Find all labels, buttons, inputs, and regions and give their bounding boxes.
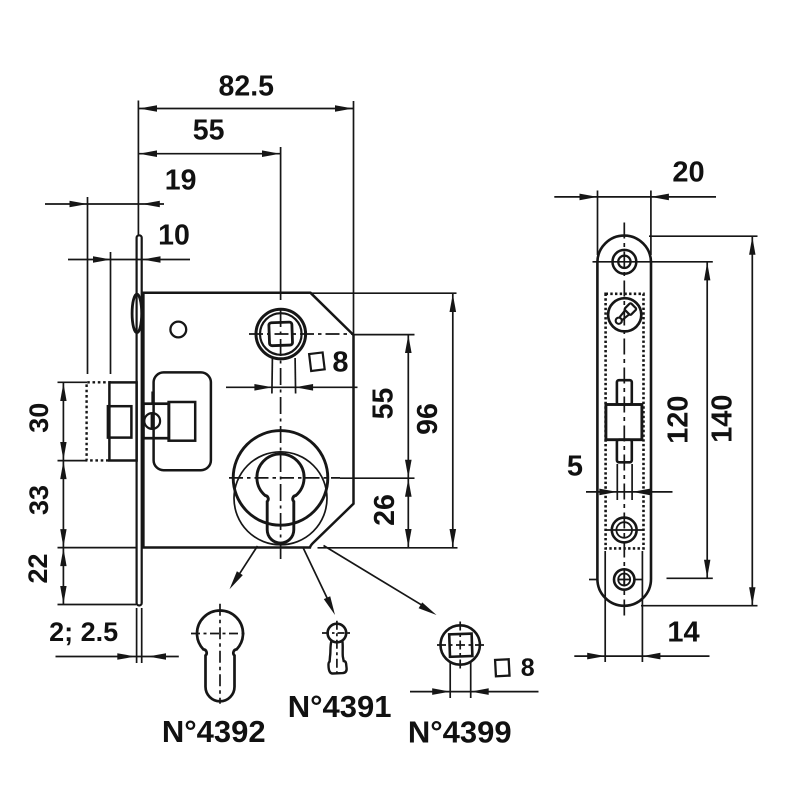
svg-text:10: 10 bbox=[158, 220, 190, 252]
dimension 33 bbox=[24, 461, 66, 548]
svg-text:19: 19 bbox=[165, 165, 197, 197]
cylinder centreline tick to 26/55 bbox=[340, 477, 415, 479]
faceplate thickness witness line right bbox=[141, 608, 143, 663]
follower hub outer circle bbox=[256, 309, 306, 359]
tick to 55 dimension (right of body) bbox=[352, 334, 415, 336]
svg-text:8: 8 bbox=[521, 654, 535, 682]
top screw hole inner bbox=[618, 256, 630, 268]
middle screw hole inner bbox=[616, 522, 632, 538]
N4392 centreline horizontal bbox=[191, 633, 248, 635]
dimension 10 (latch throw) bbox=[68, 220, 190, 263]
screw slot bbox=[151, 413, 154, 430]
faceplate (side view) bbox=[137, 235, 142, 605]
dimension 82.5 (top, lock depth) bbox=[138, 71, 353, 112]
dimension 2; 2.5 (faceplate thickness) bbox=[49, 617, 179, 660]
extension line left (faceplate, above) bbox=[137, 101, 139, 236]
callout arrow to N4399 bbox=[324, 546, 437, 616]
detail N4399 spindle circle bbox=[441, 625, 480, 664]
lock body outline bbox=[143, 293, 353, 548]
svg-text:2; 2.5: 2; 2.5 bbox=[49, 617, 118, 647]
key cylinder circle bbox=[608, 298, 641, 331]
svg-text:5: 5 bbox=[567, 451, 583, 483]
follower/cylinder centreline vertical bbox=[280, 310, 282, 562]
tick 30 top bbox=[58, 381, 88, 383]
latch spring housing rounded rect bbox=[154, 372, 211, 470]
dimension 19 (deadlocked latch throw) bbox=[45, 165, 196, 208]
cylinder rose thin circle bbox=[234, 452, 327, 545]
svg-text:20: 20 bbox=[672, 157, 704, 189]
latch front wide body bbox=[606, 405, 642, 440]
svg-text:33: 33 bbox=[24, 485, 54, 515]
N4399 square bbox=[449, 634, 472, 657]
callout arrow to N4392 bbox=[230, 546, 258, 589]
dimension 55 (backset) bbox=[138, 115, 281, 158]
latch stem block bbox=[143, 404, 169, 439]
top screw hole outer bbox=[613, 250, 637, 274]
cylinder hole thick circle bbox=[233, 431, 328, 526]
latch front upper tail bbox=[617, 380, 632, 404]
callout arrow to N4391 bbox=[303, 548, 335, 616]
tick 120 bottom bbox=[667, 577, 713, 579]
extension line right (body rear, for 82.5) bbox=[353, 101, 355, 334]
bottom hole centreline right bbox=[634, 579, 643, 581]
tick 22 bottom (faceplate bottom extension) bbox=[58, 604, 137, 606]
dimension 5 (latch tail width) bbox=[567, 451, 673, 496]
svg-text:140: 140 bbox=[707, 395, 739, 443]
witness line latch tail right bbox=[631, 464, 633, 500]
dimension 140 (plate length) bbox=[707, 236, 756, 606]
tick bottom right (body bottom extension) bbox=[318, 547, 458, 549]
dimension 120 (hole centres) bbox=[663, 262, 711, 579]
witness line plate left edge bbox=[597, 191, 599, 256]
tick 96 top (body top extension) bbox=[311, 292, 457, 294]
latch bolt head middle band bbox=[108, 406, 131, 437]
svg-text:120: 120 bbox=[663, 396, 695, 444]
svg-text:55: 55 bbox=[193, 115, 225, 147]
square spindle witness line left bbox=[271, 358, 274, 394]
witness line case right (for 14) bbox=[641, 551, 643, 662]
euro profile cylinder hole bbox=[257, 454, 304, 543]
extension line latch tip normal bbox=[110, 252, 112, 374]
screw guide line bbox=[151, 392, 153, 404]
N4399 witness line left bbox=[449, 662, 451, 699]
latch bolt dotted extended outline bbox=[87, 382, 111, 460]
bottom hole cross slot bbox=[619, 574, 630, 585]
middle hole centreline bbox=[605, 529, 645, 531]
square symbol near N4399 bbox=[495, 659, 509, 676]
N4399 witness line right bbox=[470, 662, 472, 699]
follower hub inner circle bbox=[260, 313, 302, 355]
tick 140 bottom bbox=[641, 605, 758, 607]
tick 30/33 bbox=[58, 460, 88, 462]
witness line latch tail left bbox=[616, 464, 618, 500]
latch inner rectangle bbox=[169, 402, 196, 441]
svg-text:26: 26 bbox=[369, 494, 401, 526]
latch adjusting screw bbox=[144, 413, 160, 429]
dimension 30 (latch height) bbox=[24, 383, 66, 461]
tick 33/22 (body bottom extension left) bbox=[58, 547, 138, 549]
N4391 keyhole tail bbox=[328, 641, 346, 674]
plate centreline vertical bbox=[623, 223, 625, 620]
bottom screw hole outer bbox=[614, 569, 634, 589]
auxiliary pin (lens at faceplate) bbox=[132, 294, 142, 333]
latch front lower tail bbox=[617, 440, 632, 463]
svg-text:N°4391: N°4391 bbox=[288, 689, 392, 724]
key symbol bbox=[613, 303, 636, 326]
square symbol near follower bbox=[309, 352, 325, 371]
dimension 14 (case width) bbox=[574, 617, 709, 660]
svg-text:30: 30 bbox=[24, 403, 54, 433]
dimension 8 under N4399 bbox=[410, 688, 539, 695]
witness line plate right edge bbox=[650, 191, 652, 256]
N4399 centreline vertical bbox=[459, 622, 461, 669]
svg-text:96: 96 bbox=[412, 403, 444, 435]
bottom hole centreline left bbox=[589, 579, 598, 581]
faceplate front view (stadium) bbox=[597, 236, 651, 606]
N4391 centreline vertical bbox=[336, 621, 338, 678]
top hole centreline / tick to 120 bbox=[593, 261, 713, 263]
svg-text:N°4399: N°4399 bbox=[408, 715, 512, 750]
extension line follower centre bbox=[280, 147, 282, 300]
extension line latch tip extended bbox=[87, 197, 89, 374]
dimension 26 (cylinder to bottom) bbox=[369, 478, 412, 547]
svg-text:14: 14 bbox=[667, 617, 699, 649]
dotted case outline (behind plate) bbox=[606, 294, 644, 549]
N4399 centreline horizontal bbox=[437, 644, 484, 646]
small hole in case bbox=[170, 322, 186, 338]
dimension 20 (faceplate width) bbox=[554, 157, 716, 201]
svg-text:22: 22 bbox=[23, 553, 53, 583]
svg-text:8: 8 bbox=[332, 347, 348, 379]
dimension square 8 (spindle) bbox=[226, 384, 358, 391]
witness line case left (for 14) bbox=[604, 551, 606, 662]
svg-text:82.5: 82.5 bbox=[219, 71, 275, 103]
follower centreline horizontal bbox=[249, 333, 352, 335]
faceplate thickness witness line left bbox=[136, 608, 138, 663]
latch bolt head bbox=[109, 382, 136, 460]
N4391 centreline horizontal bbox=[322, 632, 352, 634]
detail N4392 euro profile symbol bbox=[197, 610, 243, 701]
N4392 centreline vertical bbox=[219, 604, 221, 704]
bottom screw hole inner bbox=[618, 574, 630, 586]
dimension 96 (body height) bbox=[412, 294, 456, 548]
square spindle witness line right bbox=[294, 358, 297, 394]
svg-text:N°4392: N°4392 bbox=[162, 714, 266, 749]
detail N4391 keyhole circle bbox=[328, 624, 347, 643]
middle screw hole outer bbox=[612, 518, 637, 543]
dimension 22 bbox=[23, 548, 66, 605]
cylinder centreline horizontal bbox=[229, 477, 340, 479]
dimension 55 right (follower to cylinder) bbox=[368, 335, 412, 479]
svg-text:55: 55 bbox=[368, 388, 400, 420]
follower square 8mm bbox=[269, 322, 293, 346]
tick 140 top bbox=[649, 235, 758, 237]
